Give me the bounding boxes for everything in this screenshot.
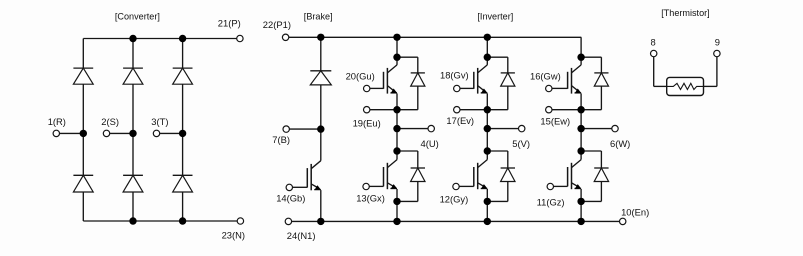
svg-text:17(Ev): 17(Ev) <box>446 115 474 126</box>
svg-text:21(P): 21(P) <box>218 18 241 29</box>
svg-text:3(T): 3(T) <box>151 116 168 127</box>
svg-text:5(V): 5(V) <box>512 138 530 149</box>
svg-text:[Converter]: [Converter] <box>115 11 160 21</box>
svg-text:9: 9 <box>715 36 720 47</box>
svg-text:7(B): 7(B) <box>272 134 290 145</box>
svg-text:14(Gb): 14(Gb) <box>276 193 305 204</box>
svg-text:12(Gy): 12(Gy) <box>440 193 469 204</box>
svg-text:15(Ew): 15(Ew) <box>540 116 570 127</box>
svg-text:10(En): 10(En) <box>621 207 649 218</box>
svg-text:[Inverter]: [Inverter] <box>477 11 513 21</box>
svg-text:1(R): 1(R) <box>48 116 66 127</box>
svg-text:6(W): 6(W) <box>610 138 630 149</box>
svg-text:22(P1): 22(P1) <box>263 19 291 30</box>
svg-text:20(Gu): 20(Gu) <box>346 70 375 81</box>
svg-text:8: 8 <box>651 36 656 47</box>
svg-text:[Thermistor]: [Thermistor] <box>661 8 710 18</box>
svg-text:4(U): 4(U) <box>421 138 439 149</box>
svg-text:2(S): 2(S) <box>101 116 119 127</box>
svg-text:19(Eu): 19(Eu) <box>353 117 381 128</box>
svg-text:13(Gx): 13(Gx) <box>356 193 385 204</box>
svg-text:24(N1): 24(N1) <box>287 230 316 241</box>
svg-text:16(Gw): 16(Gw) <box>530 71 561 82</box>
svg-text:[Brake]: [Brake] <box>304 12 333 22</box>
svg-text:18(Gv): 18(Gv) <box>440 70 469 81</box>
svg-text:11(Gz): 11(Gz) <box>537 196 565 207</box>
svg-text:23(N): 23(N) <box>222 229 245 240</box>
